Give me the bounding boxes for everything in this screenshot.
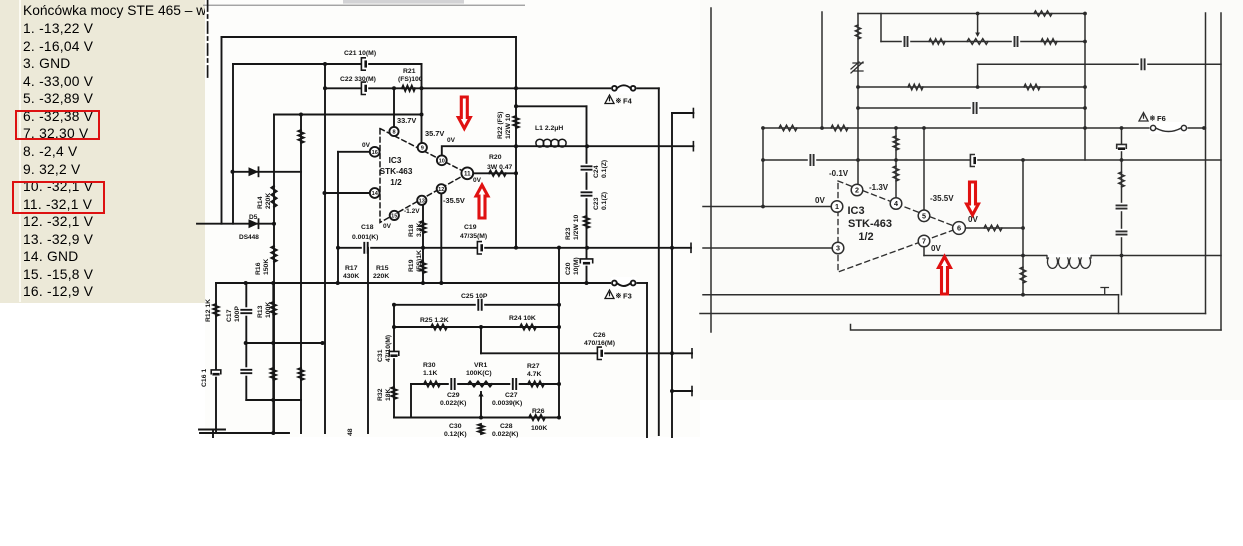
svg-text:47/35(M): 47/35(M)	[460, 233, 487, 240]
junction	[1083, 12, 1087, 16]
capacitor on y108 rail	[971, 102, 979, 114]
wire top border	[222, 36, 517, 38]
wire x858 bus	[857, 14, 859, 185]
svg-text:0.1(Z): 0.1(Z)	[601, 160, 608, 178]
svg-text:0V: 0V	[931, 244, 941, 253]
connector mark y287	[1101, 288, 1108, 295]
wire pin12 column	[440, 194, 442, 283]
junction	[323, 86, 327, 90]
capacitor x1121 top	[1118, 145, 1126, 151]
svg-text:4: 4	[894, 199, 898, 208]
svg-text:1/2: 1/2	[390, 178, 402, 187]
junction	[856, 106, 860, 110]
capacitor C21	[362, 59, 368, 70]
wire x368 column	[367, 248, 369, 433]
svg-text:13: 13	[419, 198, 425, 204]
svg-text:STK-463: STK-463	[380, 167, 413, 176]
svg-text:-1.3V: -1.3V	[869, 183, 889, 192]
wire bottom corner	[199, 430, 225, 438]
junction	[336, 281, 340, 285]
junction	[670, 246, 674, 250]
junction	[420, 113, 424, 117]
capacitor x1121 mid	[1116, 203, 1128, 211]
junction	[1120, 158, 1124, 162]
capacitor 2 on inner rail	[1012, 36, 1020, 47]
svg-text:C31: C31	[377, 349, 384, 362]
svg-text:47/10(M): 47/10(M)	[385, 335, 392, 362]
svg-text:470/16(M): 470/16(M)	[584, 340, 615, 347]
IC3 pin 14	[370, 188, 380, 198]
svg-text:※: ※	[616, 97, 622, 105]
svg-text:0V: 0V	[815, 196, 825, 205]
junction	[1021, 254, 1025, 258]
wire x1023 column	[1022, 160, 1024, 295]
svg-text:R13: R13	[257, 305, 264, 318]
svg-text:R24 10K: R24 10K	[509, 315, 536, 322]
wire x216 column	[215, 283, 217, 433]
junction	[1021, 226, 1025, 230]
resistor on y87 left	[908, 84, 923, 90]
wire y160 rail	[763, 159, 1221, 161]
capacitor on y160	[808, 154, 816, 166]
wire right-scan left border	[710, 8, 712, 332]
red box pins 6-7	[15, 110, 100, 140]
svg-text:-0.1V: -0.1V	[829, 169, 849, 178]
svg-text:-1.2V: -1.2V	[404, 208, 420, 215]
capacitor C31	[390, 352, 398, 358]
svg-text:C28: C28	[500, 423, 513, 430]
capacitor C19	[478, 242, 484, 253]
inductor L1	[536, 139, 544, 147]
svg-text:C20: C20	[565, 262, 572, 275]
junction	[976, 12, 980, 16]
resistor R16	[271, 246, 276, 262]
svg-text:R25 1.2K: R25 1.2K	[420, 317, 449, 324]
svg-text:R19: R19	[408, 259, 415, 272]
wire x559 column	[558, 248, 560, 418]
junction	[271, 281, 275, 285]
svg-text:C16 1: C16 1	[201, 369, 208, 387]
svg-text:R18: R18	[408, 224, 415, 237]
junction	[321, 341, 325, 345]
junction	[323, 191, 327, 195]
svg-text:220K: 220K	[265, 193, 272, 209]
svg-text:C27: C27	[505, 392, 518, 399]
svg-text:0.0039(K): 0.0039(K)	[492, 400, 522, 407]
wire feedback rail right	[637, 282, 647, 284]
svg-text:IC3: IC3	[847, 205, 864, 217]
wire R13 column	[272, 283, 274, 433]
IC3 right pin 2	[851, 184, 863, 196]
junction	[1120, 126, 1124, 130]
junction	[820, 126, 824, 130]
junction	[323, 62, 327, 66]
panel separator line	[19, 0, 21, 302]
junction	[976, 85, 980, 89]
svg-text:220K: 220K	[373, 273, 389, 280]
wire pin16 lead	[338, 151, 370, 153]
diode D5	[249, 219, 259, 228]
junction	[557, 416, 561, 420]
resistor 2 on inner rail	[1041, 39, 1057, 45]
capacitor C29	[449, 378, 457, 390]
IC3 pin 8	[389, 127, 398, 136]
wire x411 drop	[410, 384, 412, 418]
capacitor C27	[510, 378, 518, 390]
wire x325 vertical	[324, 64, 326, 433]
svg-text:1/2W 10: 1/2W 10	[573, 214, 580, 240]
svg-text:100K(C): 100K(C)	[466, 370, 492, 377]
svg-text:0V: 0V	[383, 223, 392, 230]
wire stub y248	[672, 247, 691, 249]
wire bias rail	[274, 114, 422, 116]
junction	[336, 246, 340, 250]
junction	[244, 341, 248, 345]
svg-text:5: 5	[922, 211, 926, 220]
resistor pin6 output	[984, 225, 1002, 231]
junction	[392, 325, 396, 329]
svg-text:8: 8	[392, 130, 395, 136]
capacitor C polarized on y160	[971, 155, 977, 165]
wire C31 column	[393, 305, 395, 418]
IC3 pin 16	[370, 147, 380, 157]
wire inner left vertical	[232, 64, 234, 224]
svg-text:1: 1	[835, 202, 839, 211]
resistor x896 upper	[893, 136, 899, 150]
wire y294 rail	[703, 294, 1119, 296]
wire node9 drop	[421, 64, 423, 143]
wire R25/R24 rail	[394, 326, 559, 328]
junction	[1202, 126, 1206, 130]
resistor x1121	[1119, 172, 1125, 187]
svg-text:0.1(Z): 0.1(Z)	[601, 192, 608, 210]
wire x1121 column	[1121, 128, 1123, 255]
svg-text:C26: C26	[593, 332, 606, 339]
svg-text:STK-463: STK-463	[848, 218, 892, 230]
junction	[299, 113, 303, 117]
junction	[392, 86, 396, 90]
junction	[1083, 106, 1087, 110]
resistor R23	[584, 216, 589, 228]
resistor R32	[391, 387, 396, 399]
wire x822 vertical	[821, 12, 823, 128]
capacitor on inner rail	[902, 36, 910, 47]
svg-text:100P: 100P	[234, 306, 241, 322]
junction	[856, 85, 860, 89]
resistor R18	[420, 221, 425, 233]
wire right border inner	[1220, 13, 1222, 330]
svg-text:100K: 100K	[531, 425, 547, 432]
junction	[585, 144, 589, 148]
junction	[1083, 126, 1087, 130]
junction	[856, 158, 860, 162]
svg-text:L1 2.2μH: L1 2.2μH	[535, 125, 563, 132]
resistor R14	[271, 186, 276, 207]
resistor R19	[420, 261, 425, 273]
junction	[1083, 40, 1087, 44]
svg-text:C24: C24	[593, 165, 600, 178]
tick stub y248	[690, 243, 692, 252]
wire inner rail	[881, 41, 1085, 43]
svg-text:3.3K: 3.3K	[416, 223, 423, 237]
wire R column x301	[300, 115, 302, 434]
wire inner rail left drop	[880, 14, 882, 42]
junction	[439, 281, 443, 285]
wire C17 column	[245, 283, 247, 400]
scan paper backgrounds	[205, 0, 700, 437]
capacitor C20	[581, 259, 592, 265]
wire x672 column	[671, 113, 673, 437]
resistor R27	[528, 381, 544, 386]
junction	[271, 431, 275, 435]
svg-text:0V: 0V	[447, 137, 456, 144]
svg-text:0.001(K): 0.001(K)	[352, 234, 378, 241]
svg-text:C30: C30	[449, 423, 462, 430]
wire pot wiper	[977, 15, 979, 34]
op-amp IC3 right half dashed triangle	[838, 181, 959, 272]
wire y64 rail	[978, 63, 1221, 65]
red box pins 10-11	[12, 181, 105, 214]
wire C26 rail	[481, 352, 672, 354]
junction	[761, 205, 765, 209]
tick stub y353	[691, 349, 693, 358]
resistor x1023	[1020, 267, 1026, 283]
warning F6	[1139, 113, 1148, 122]
resistor R26	[529, 415, 545, 420]
svg-text:D5: D5	[249, 214, 258, 221]
red arrow up left schematic	[476, 185, 488, 218]
IC3 pin 15	[390, 211, 399, 220]
svg-text:0.022(K): 0.022(K)	[440, 400, 466, 407]
wire pin6 output	[966, 227, 1024, 229]
svg-text:0.022(K): 0.022(K)	[492, 431, 518, 438]
svg-text:3W 0.47: 3W 0.47	[487, 164, 513, 171]
junction	[479, 416, 483, 420]
wire y294 corner	[1118, 295, 1120, 314]
svg-text:C17: C17	[226, 309, 233, 322]
svg-text:18K: 18K	[385, 388, 392, 401]
resistor R12	[213, 304, 218, 316]
IC3 pin 13	[417, 196, 426, 205]
op-amp IC3 left half dashed triangle	[380, 129, 467, 223]
wire VR1 wiper	[480, 392, 482, 418]
resistor R30	[424, 381, 440, 386]
wire upper link rail	[516, 105, 587, 107]
svg-text:35.7V: 35.7V	[425, 129, 444, 138]
wire supply rail y128	[763, 127, 1150, 129]
junction	[894, 158, 898, 162]
svg-text:F3: F3	[623, 292, 632, 301]
svg-text:R15: R15	[376, 265, 389, 272]
wire x924 drop	[923, 128, 925, 210]
IC3 pin 11	[461, 167, 473, 179]
voltage list panel	[0, 0, 205, 303]
svg-text:C29: C29	[447, 392, 460, 399]
svg-text:2: 2	[855, 186, 859, 195]
svg-text:C22 330(M): C22 330(M)	[340, 76, 376, 83]
svg-text:※: ※	[616, 292, 622, 300]
junction	[585, 246, 589, 250]
capacitor C16	[212, 370, 220, 376]
svg-text:4.7K: 4.7K	[527, 371, 541, 378]
IC3 right pin 6	[953, 222, 966, 235]
resistor on y87 right	[1024, 84, 1040, 90]
resistor R24	[520, 324, 536, 329]
junction	[1083, 85, 1087, 89]
wire y255 rail	[924, 255, 1221, 257]
svg-text:R20: R20	[489, 154, 502, 161]
resistor R13	[271, 302, 276, 315]
wire VR1 wiper drop	[480, 327, 482, 353]
resistor R20	[489, 171, 506, 176]
svg-text:11: 11	[464, 171, 471, 178]
resistor R25	[431, 324, 447, 329]
wire diode rail	[233, 171, 302, 173]
svg-text:7: 7	[922, 237, 926, 246]
warning F4	[605, 95, 614, 104]
resistor on y128 mid	[831, 125, 848, 131]
svg-text:(FS)1K: (FS)1K	[416, 250, 423, 272]
wire C25 rail	[394, 304, 559, 306]
svg-text:14: 14	[372, 191, 379, 197]
wire feedback rail	[216, 282, 611, 284]
svg-text:(FS)100: (FS)100	[398, 76, 423, 83]
junction	[922, 126, 926, 130]
wire R14 column	[273, 115, 275, 434]
svg-text:R17: R17	[345, 265, 358, 272]
scan left edge dashed border	[207, 0, 209, 78]
svg-text:0V: 0V	[473, 177, 482, 184]
wire x338 column	[337, 152, 339, 283]
wire supply rail y128 right	[1187, 127, 1206, 129]
junction	[670, 389, 674, 393]
fuse F3	[611, 277, 637, 289]
wire y87 rail	[858, 86, 1085, 88]
junction	[479, 325, 483, 329]
svg-text:0.12(K): 0.12(K)	[444, 431, 467, 438]
capacitor C25	[476, 299, 484, 311]
svg-text:C18: C18	[361, 224, 374, 231]
junction	[670, 351, 674, 355]
wire tone rail	[411, 383, 559, 385]
svg-text:10: 10	[439, 158, 445, 164]
junction	[420, 86, 424, 90]
tick stub y113	[692, 109, 694, 118]
wire D5 rail	[197, 223, 275, 225]
junction	[421, 281, 425, 285]
junction	[557, 303, 561, 307]
svg-text:3: 3	[836, 244, 840, 253]
capacitor C26	[598, 348, 604, 359]
wire y313 rail	[700, 313, 1206, 315]
svg-text:R12 1K: R12 1K	[205, 299, 212, 322]
tick stub y391	[691, 387, 693, 396]
junction	[514, 246, 518, 250]
wire stub y353	[672, 352, 692, 354]
capacitor on y64 rail	[1139, 58, 1147, 70]
junction	[557, 382, 561, 386]
wire lower box rail	[246, 399, 301, 401]
svg-text:VR1: VR1	[474, 362, 487, 369]
resistor on y128 left	[779, 125, 797, 131]
resistor mid x273	[271, 368, 276, 380]
junction	[244, 281, 248, 285]
svg-text:9: 9	[421, 146, 424, 152]
IC3 pin 10	[437, 155, 447, 165]
svg-text:48: 48	[347, 428, 354, 436]
svg-text:-35.5V: -35.5V	[930, 194, 954, 203]
junction	[392, 303, 396, 307]
junction	[421, 246, 425, 250]
capacitor C22	[362, 83, 368, 94]
wire pin14 lead	[325, 192, 371, 194]
resistor mid x301	[298, 368, 303, 380]
IC3 pin 12	[437, 184, 446, 193]
svg-text:R30: R30	[423, 362, 436, 369]
wire bottom cut rail	[200, 432, 289, 434]
junction	[761, 158, 765, 162]
wire pin3 input rail	[703, 247, 832, 249]
wire pin11 lead	[473, 172, 516, 174]
svg-text:C23: C23	[593, 197, 600, 210]
wire x896 drop	[895, 128, 897, 198]
svg-text:IC3: IC3	[389, 156, 402, 165]
junction	[272, 222, 276, 226]
wire x1122 lower	[1121, 256, 1123, 295]
junction	[1120, 254, 1124, 258]
potentiometer VR1	[468, 381, 492, 386]
resistor on x301 upper	[298, 130, 303, 143]
svg-text:430K: 430K	[343, 273, 359, 280]
svg-text:16: 16	[372, 150, 378, 156]
svg-text:12: 12	[438, 187, 444, 193]
wire C22/R21 rail	[325, 87, 613, 89]
wire C18/C19 rail	[338, 247, 672, 249]
IC3 right pin 1	[831, 201, 843, 213]
wire pin7 drop	[923, 247, 925, 256]
wire C17R13 rail	[246, 342, 325, 344]
wire R22 column	[515, 37, 517, 248]
svg-text:15: 15	[391, 213, 397, 219]
junction	[1021, 158, 1025, 162]
capacitor below C17	[240, 367, 252, 375]
junction	[514, 86, 518, 90]
svg-text:R32: R32	[377, 388, 384, 401]
svg-text:-35.5V: -35.5V	[443, 196, 465, 205]
resistor small x481	[478, 424, 483, 434]
svg-text:R22 (FS): R22 (FS)	[497, 111, 504, 139]
tick inductor rail end	[692, 142, 694, 151]
svg-text:R14: R14	[257, 196, 264, 209]
svg-text:※: ※	[1150, 115, 1156, 123]
resistor x896 lower	[893, 166, 899, 181]
IC3 pin 9	[418, 143, 427, 152]
resistor R22	[513, 116, 518, 128]
svg-text:R16: R16	[255, 262, 262, 275]
wire R18/R19 column	[422, 205, 424, 284]
svg-text:33.7V: 33.7V	[397, 116, 416, 125]
svg-text:1/2W 10: 1/2W 10	[505, 113, 512, 139]
wire y330 rail	[851, 325, 1222, 331]
junction	[1021, 293, 1025, 297]
red arrow down left schematic	[458, 97, 470, 129]
resistor on top rail	[1034, 11, 1052, 16]
junction	[557, 325, 561, 329]
wire F4 rail right	[637, 87, 659, 89]
capacitor C18	[362, 242, 370, 254]
svg-text:R21: R21	[403, 68, 416, 75]
svg-text:0V: 0V	[362, 142, 371, 149]
